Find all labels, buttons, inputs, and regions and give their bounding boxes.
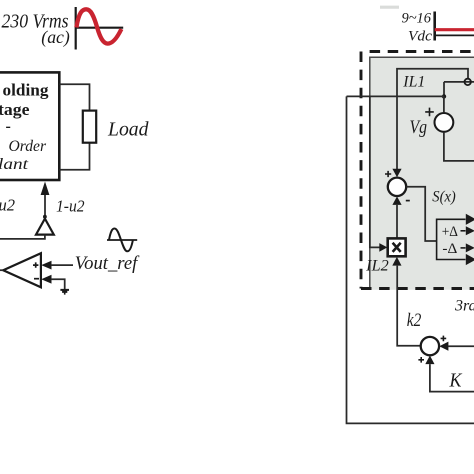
relay bottom edge arrow bbox=[466, 254, 474, 265]
inverter bubble bbox=[43, 215, 47, 219]
switch node circle bbox=[465, 79, 471, 85]
plus S2 bottom bbox=[418, 357, 424, 363]
svg-text:3rd: 3rd bbox=[454, 298, 474, 315]
wire feedback loop left/bottom bbox=[347, 96, 474, 423]
inverter U2 bbox=[36, 219, 54, 235]
source Vg bbox=[435, 113, 454, 132]
arrow into S1 top bbox=[392, 169, 401, 177]
wire Vout_ref arrow bbox=[41, 261, 51, 270]
svg-text:Vdc: Vdc bbox=[408, 29, 432, 45]
svg-text:1-u2: 1-u2 bbox=[56, 197, 85, 216]
wire K into S2 bbox=[430, 364, 474, 392]
wire op-amp output bbox=[0, 269, 3, 271]
block holding stage / 3rd order plant (cut at left) bbox=[0, 72, 59, 180]
relay block bbox=[437, 219, 466, 259]
minus S1 bbox=[406, 200, 410, 202]
summing junction S2 bbox=[421, 337, 439, 355]
wire Vg bottom bbox=[444, 132, 474, 161]
junction dot bbox=[442, 94, 446, 98]
svg-text:k2: k2 bbox=[407, 310, 422, 331]
wire load top bbox=[59, 84, 89, 110]
svg-text:Vg: Vg bbox=[410, 117, 428, 138]
arrow into S2 right bbox=[439, 342, 448, 351]
relay +delta arrow bbox=[461, 230, 466, 232]
source Vg plus bbox=[425, 108, 434, 117]
wire S1 to relay bbox=[406, 187, 436, 241]
converter box border bbox=[370, 57, 474, 290]
ac sine wave red bbox=[76, 9, 121, 43]
plus S2 right bbox=[441, 336, 447, 342]
resistor Load bbox=[83, 111, 96, 143]
dc bus bar bbox=[433, 12, 436, 41]
wire IL2 into multiplier bbox=[370, 97, 380, 247]
op-amp minus bbox=[34, 278, 39, 280]
svg-text:-: - bbox=[6, 118, 11, 135]
plus S1 bbox=[385, 171, 391, 177]
dashed boundary bbox=[361, 52, 474, 289]
wire load bottom bbox=[59, 143, 89, 170]
faint remnant line bbox=[380, 6, 399, 9]
wire inverter input bbox=[0, 235, 45, 239]
wire Vg top bbox=[443, 96, 445, 112]
svg-text:Order: Order bbox=[9, 138, 47, 155]
svg-text:olding: olding bbox=[3, 81, 50, 100]
ac sine axes bbox=[76, 7, 124, 50]
multiplier block bbox=[388, 238, 406, 256]
svg-text:u2: u2 bbox=[0, 196, 15, 215]
multiplier cross bbox=[393, 243, 401, 252]
wire S1 bottom to multiplier bbox=[396, 205, 398, 239]
wire into S2 right bbox=[448, 345, 474, 347]
svg-text:IL1: IL1 bbox=[402, 74, 425, 91]
wire IL1 top bbox=[397, 69, 468, 171]
relay top edge arrow bbox=[466, 214, 474, 225]
wire k2 bbox=[397, 266, 421, 346]
summing junction S1 bbox=[388, 178, 406, 196]
arrow into S2 bottom bbox=[425, 356, 434, 365]
svg-text:K: K bbox=[449, 370, 463, 392]
svg-text:tage: tage bbox=[0, 100, 30, 119]
converter shaded box bbox=[370, 57, 474, 290]
ground bbox=[60, 290, 69, 294]
arrow into multiplier bottom bbox=[392, 257, 401, 266]
wire inverting input arrow bbox=[41, 275, 51, 284]
svg-text:(ac): (ac) bbox=[41, 27, 70, 48]
ref sine axis bbox=[107, 239, 137, 241]
relay -delta arrow bbox=[461, 247, 466, 249]
op-amp comparator bbox=[3, 253, 41, 287]
svg-text:9~16: 9~16 bbox=[402, 11, 432, 27]
op-amp plus bbox=[33, 262, 38, 267]
svg-text:Vout_ref: Vout_ref bbox=[75, 253, 140, 274]
svg-text:+Δ: +Δ bbox=[442, 224, 459, 240]
svg-text:lant: lant bbox=[0, 156, 29, 173]
wire switch node bbox=[444, 82, 474, 97]
arrow into S1 bottom bbox=[392, 196, 401, 205]
wire 1-u2 arrow into block bbox=[44, 195, 46, 216]
svg-text:S(x): S(x) bbox=[432, 189, 456, 206]
svg-text:IL2: IL2 bbox=[365, 257, 389, 274]
wire feedback top bbox=[347, 95, 445, 97]
svg-text:Load: Load bbox=[107, 120, 149, 141]
dc bus black line bbox=[435, 34, 474, 36]
dc bus red line bbox=[435, 28, 474, 31]
ref sine wave bbox=[109, 229, 133, 252]
svg-text:-Δ: -Δ bbox=[442, 241, 457, 257]
